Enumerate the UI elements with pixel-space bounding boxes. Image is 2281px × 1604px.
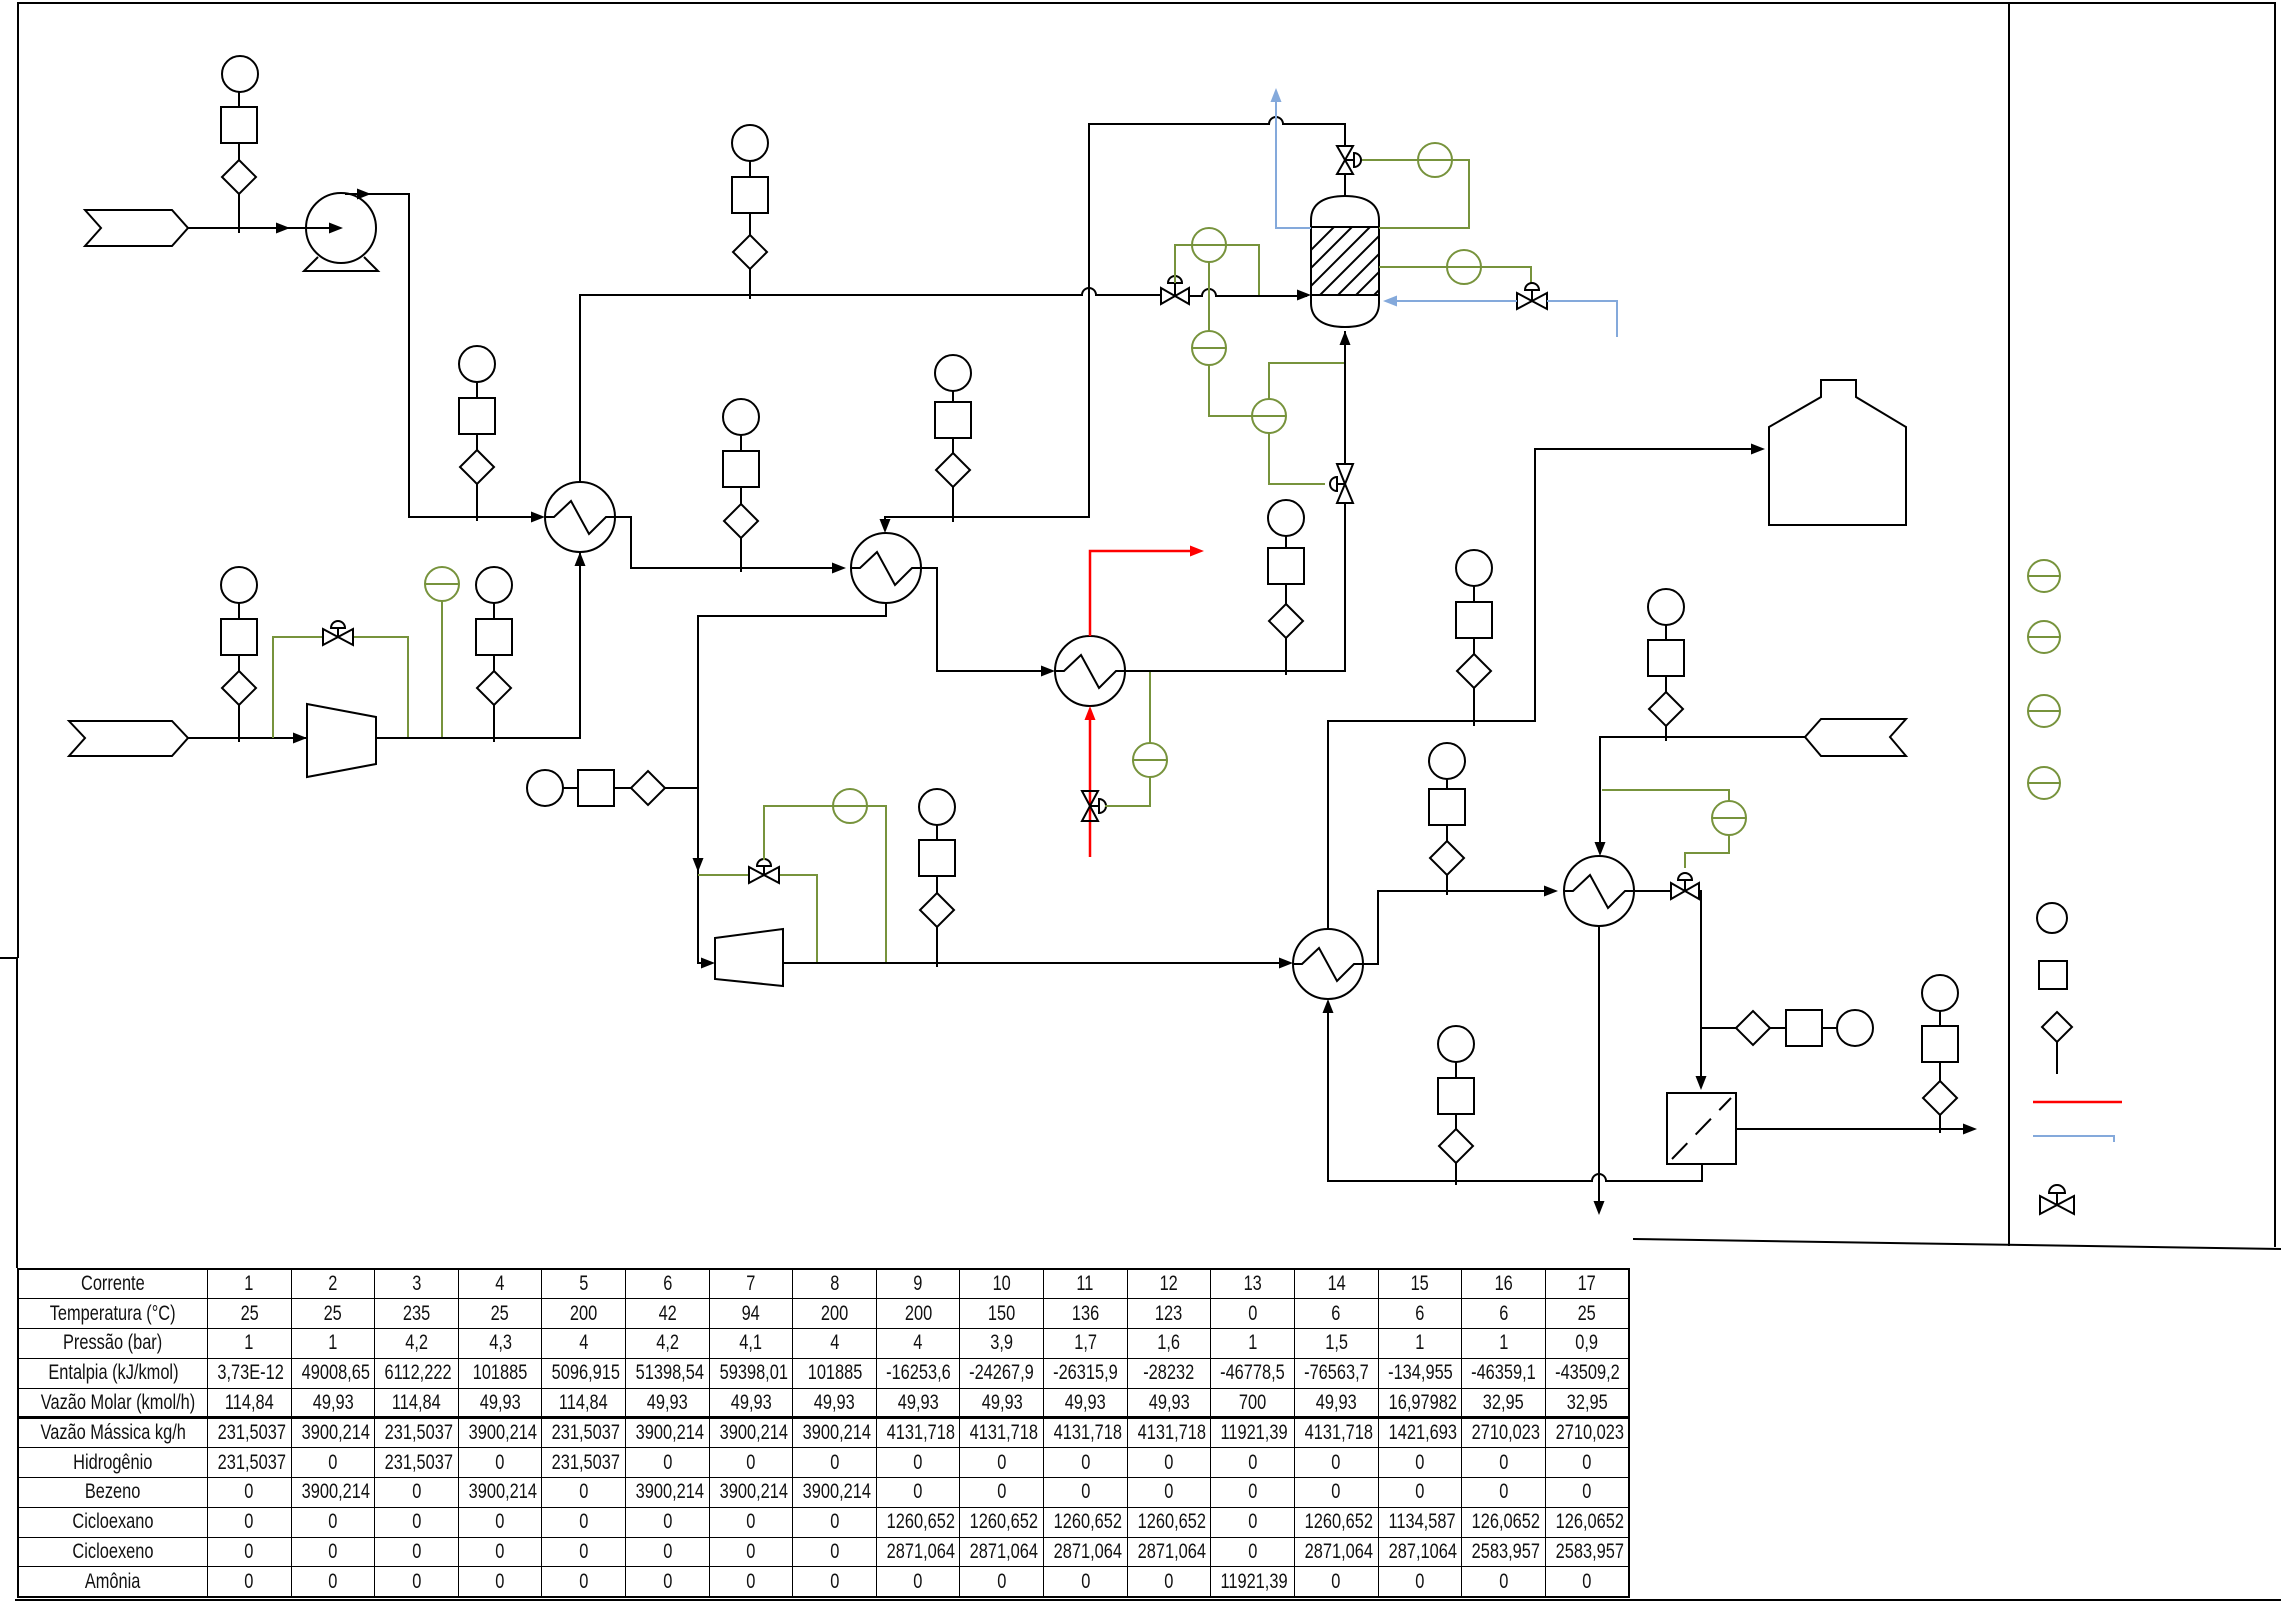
wire: feed 1 to pump P-1 — [188, 223, 343, 234]
compressor C-1 — [307, 704, 376, 777]
stream flag: refrigerant feed — [1805, 719, 1906, 756]
instrument row: separator feed indicators — [1736, 1010, 1873, 1046]
instrument stack: tank feed indicators — [1456, 550, 1492, 726]
wire: E-3 to reactor bottom — [1125, 331, 1351, 671]
wire: V-7 to separator X-1 — [1696, 891, 1737, 1090]
heat exchanger E-1 — [545, 482, 615, 552]
instrument stack: E-5 inlet indicators — [1429, 743, 1465, 895]
controller: C-2 discharge sensor — [764, 789, 886, 963]
controller chain: feed valve cascade — [1175, 228, 1259, 331]
valve V-5 on red utility line — [1082, 791, 1106, 821]
instrument stack: E-1 inlet indicators — [459, 346, 495, 521]
legend: controller symbol 1 — [2028, 560, 2060, 592]
pump P-1 — [304, 193, 378, 271]
frame top border — [17, 2, 2276, 4]
legend: indicator circle — [2037, 903, 2067, 933]
instrument stack: C-1 suction indicators — [221, 567, 257, 742]
instrument stack: recycle indicators — [1438, 1026, 1474, 1185]
blue utility: cooling water supply — [1383, 296, 1617, 338]
wire: E-1 hot out to reactor feed header — [580, 288, 1161, 482]
wire: X-1 bottoms recycle to E-4 — [1323, 999, 1703, 1181]
reactor R-1 vessel — [1272, 196, 1424, 327]
legend: indicator diamond with tail — [2042, 1012, 2072, 1074]
legend: indicator square — [2039, 961, 2067, 989]
valve V-3 on blue utility — [1517, 283, 1547, 309]
heat exchanger E-5 — [1564, 856, 1634, 926]
control valve V-1 on reactor feed — [1161, 276, 1189, 304]
blue utility: cooling water return — [1271, 88, 1312, 228]
frame left border — [0, 2, 18, 1268]
legend panel divider — [2008, 3, 2010, 1246]
green bypass line around C-1 — [273, 637, 408, 738]
wire: C-2 discharge to E-4 — [783, 958, 1293, 969]
heat exchanger E-2 — [851, 533, 921, 603]
wire: E-4 to E-5 — [1363, 886, 1558, 965]
controller loop: reactor overhead valve — [1362, 143, 1469, 228]
controller: reactor bed temperature — [1379, 250, 1531, 284]
wire: X-1 vapour product — [1736, 1124, 1977, 1135]
instrument stack: reactor feed indicators — [732, 125, 768, 299]
controller: C-1 discharge sensor — [425, 567, 459, 738]
stream flag: hydrogen feed 1 — [85, 210, 188, 246]
wire: C-2 inlet arrow — [701, 958, 715, 969]
frame right border — [2274, 3, 2276, 1247]
storage tank TK-1 — [1769, 380, 1906, 525]
wire: E-5 to valve V-7 — [1634, 890, 1671, 892]
legend: blue utility line — [2033, 1136, 2114, 1142]
wire: C-1 discharge to E-1 shell — [376, 552, 586, 738]
green bypass line around C-2 — [698, 875, 817, 963]
legend: controller symbol 3 — [2028, 695, 2060, 727]
wire: feed 2 to compressor C-1 — [188, 733, 307, 744]
wire: E-2 bottom to compressor C-2 — [693, 603, 887, 963]
wire: E-2 to E-3 — [921, 568, 1055, 677]
instrument stack: C-2 discharge indicators — [919, 789, 955, 967]
bypass valve V-8 — [323, 621, 353, 645]
legend: red utility line — [2033, 1101, 2122, 1104]
instrument stack: refrigerant indicators — [1648, 589, 1684, 741]
stream flag: benzene feed 2 — [69, 721, 188, 756]
instrument stack: pump suction indicators — [221, 56, 258, 233]
instrument stack: X-1 vapour indicators — [1922, 975, 1958, 1133]
sheet bottom bar — [15, 1599, 2281, 1601]
wire: reactor overhead to E-2 tube inlet — [880, 117, 1346, 533]
wire: E-4 hot outlet to tank — [1328, 444, 1765, 930]
drawing area bottom edge — [1633, 1239, 2281, 1249]
controller: reactor level — [1192, 331, 1252, 416]
instrument stack: C-1 discharge indicators — [476, 567, 512, 742]
wire: E-1 to E-2 — [615, 517, 846, 574]
heat exchanger E-3 — [1055, 636, 1125, 706]
wire: refrigerant to E-5 top — [1595, 737, 1806, 856]
controller: E-3 outlet temperature — [1105, 671, 1167, 806]
controller: E-5 outlet temperature — [1602, 790, 1746, 868]
instrument stack: E-2 gas inlet indicators — [935, 355, 971, 522]
legend: control valve symbol — [2040, 1185, 2074, 1214]
wire: reactor top stub — [1344, 174, 1346, 196]
instrument stack: E-2 inlet indicators — [723, 399, 759, 572]
bypass valve V-6 — [749, 859, 779, 883]
heat exchanger E-4 — [1293, 929, 1363, 999]
separator X-1 — [1667, 1093, 1736, 1164]
valve V-7 on E-5 outlet — [1671, 873, 1699, 899]
instrument row: C-2 suction indicators — [527, 770, 698, 806]
controller: reactor bottoms flow — [1252, 363, 1344, 484]
red utility: hot stream through E-3 — [1085, 546, 1205, 858]
legend: controller symbol 2 — [2028, 621, 2060, 653]
instrument stack: reactor inlet indicators — [1268, 500, 1304, 675]
stream data table — [17, 1268, 1630, 1598]
legend: controller symbol 4 — [2028, 767, 2060, 799]
wire: pump discharge to E-1 — [345, 189, 545, 523]
compressor C-2 — [715, 929, 783, 986]
valve V-4 on reactor bottom line — [1330, 464, 1353, 503]
wire: V-1 to reactor R-1 — [1189, 289, 1311, 301]
wire: E-5 cold product out — [1594, 926, 1605, 1215]
valve V-2 on reactor overhead — [1337, 146, 1361, 174]
